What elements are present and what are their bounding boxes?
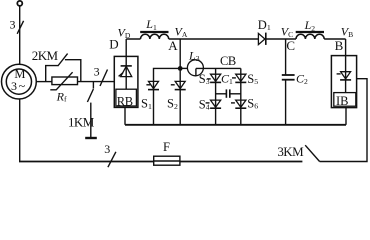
wire B box bottom to rail bbox=[345, 108, 347, 125]
2KM right arm bbox=[65, 60, 81, 82]
svg-text:B: B bbox=[335, 38, 344, 53]
RB inner box bbox=[116, 89, 136, 106]
svg-text:S3: S3 bbox=[199, 72, 210, 86]
D thyristor (pointing up) bbox=[125, 56, 127, 89]
bottom wire left bbox=[19, 161, 154, 163]
svg-text:CB: CB bbox=[220, 54, 236, 68]
svg-text:F: F bbox=[163, 140, 170, 154]
svg-text:VC: VC bbox=[281, 25, 293, 40]
top rail segment L2 to B bbox=[324, 38, 345, 40]
1KM lower wire bbox=[90, 103, 92, 138]
wire supply to motor bbox=[19, 6, 21, 64]
capacitor C2 plates bbox=[282, 74, 295, 76]
motor M outer circle bbox=[2, 64, 37, 99]
top rail segment D to L1 bbox=[126, 38, 140, 40]
svg-text:S4: S4 bbox=[199, 97, 210, 111]
svg-text:RB: RB bbox=[117, 94, 133, 108]
vertical rail to D box top bbox=[125, 39, 127, 56]
thyristor S3 bbox=[211, 74, 221, 81]
CB top line bbox=[196, 67, 241, 69]
svg-text:L3: L3 bbox=[188, 49, 200, 64]
svg-text:3: 3 bbox=[104, 142, 110, 156]
CB right leg wire bbox=[240, 68, 242, 124]
node A junction dot bbox=[178, 66, 183, 71]
thyristor S2 bbox=[175, 81, 185, 88]
svg-text:S5: S5 bbox=[247, 72, 258, 86]
wire motor bottom to bottom-left corner bbox=[19, 99, 21, 162]
wire C vertical bbox=[285, 39, 287, 75]
three-phase slash (middle) bbox=[100, 70, 108, 87]
svg-text:IB: IB bbox=[336, 94, 349, 108]
vertical D box bottom to rail bbox=[124, 107, 126, 125]
diode D1 bbox=[258, 33, 265, 44]
svg-text:L2: L2 bbox=[304, 18, 316, 33]
1KM blade bbox=[87, 89, 93, 102]
1KM end bar bbox=[85, 137, 97, 139]
capacitor C1 plates bbox=[225, 89, 227, 97]
svg-text:S1: S1 bbox=[141, 97, 152, 111]
wire S1 branch horizontal bbox=[154, 68, 181, 124]
svg-text:3~: 3~ bbox=[11, 79, 26, 93]
thyristor S6 bbox=[236, 100, 246, 107]
three-phase slash mark bbox=[17, 21, 23, 34]
svg-text:S6: S6 bbox=[247, 96, 258, 110]
svg-text:1KM: 1KM bbox=[68, 115, 95, 130]
wire B vertical bbox=[345, 39, 347, 56]
resistor thermistor slash bbox=[50, 72, 72, 90]
thyristor S4 bbox=[211, 100, 221, 107]
inductor L2 bbox=[296, 34, 324, 39]
three-phase slash (bottom) bbox=[108, 152, 116, 167]
wire A vertical bbox=[179, 39, 181, 68]
bottom wire to 3KM bbox=[180, 161, 303, 163]
D box (rectifier block) bbox=[114, 56, 138, 107]
top rail segment L1 to D1 bbox=[169, 38, 259, 40]
svg-text:Rf: Rf bbox=[56, 89, 67, 103]
svg-text:2KM: 2KM bbox=[32, 48, 59, 63]
inductor L1 bbox=[141, 34, 169, 39]
D thyristor gate bbox=[119, 73, 123, 77]
thyristor S1 bbox=[149, 81, 159, 88]
svg-text:VB: VB bbox=[341, 25, 353, 40]
wire resistor to D box bbox=[78, 81, 115, 83]
wire S2 vertical bbox=[179, 68, 181, 124]
3KM blade bbox=[305, 145, 319, 161]
inductor L3 (pigtail loop) bbox=[183, 67, 188, 69]
fuse F box bbox=[154, 156, 180, 165]
wire C2 to bottom rail bbox=[285, 80, 287, 125]
svg-text:3KM: 3KM bbox=[277, 144, 304, 159]
svg-text:C1: C1 bbox=[221, 72, 233, 86]
fuse wire through bbox=[154, 160, 180, 162]
terminal (supply) circle top-left bbox=[17, 1, 22, 6]
svg-text:3: 3 bbox=[10, 18, 16, 32]
svg-text:A: A bbox=[168, 38, 178, 53]
wire B box right side bbox=[320, 79, 367, 162]
capacitor C1 leads bbox=[216, 93, 227, 95]
wire motor to resistor bbox=[36, 81, 52, 83]
svg-text:C2: C2 bbox=[296, 72, 308, 86]
IB inner box bbox=[334, 93, 356, 107]
thyristor S5 bbox=[236, 74, 246, 81]
svg-text:C: C bbox=[286, 38, 295, 53]
resistor Rf box bbox=[52, 77, 78, 85]
B thyristor (pointing down) bbox=[345, 56, 347, 93]
2KM contact left vertical bbox=[46, 66, 59, 82]
svg-text:VD: VD bbox=[118, 26, 131, 41]
svg-text:3: 3 bbox=[94, 65, 100, 79]
svg-text:D1: D1 bbox=[258, 18, 271, 32]
svg-text:S2: S2 bbox=[167, 97, 178, 111]
2KM blade bbox=[58, 54, 68, 66]
bottom mid rail bbox=[125, 124, 346, 126]
CB left leg wire bbox=[215, 68, 217, 124]
B box (inverter block) bbox=[331, 56, 356, 108]
svg-text:L1: L1 bbox=[145, 17, 157, 32]
top rail segment D1 to L2 bbox=[266, 38, 296, 40]
motor M inner circle bbox=[6, 69, 31, 94]
1KM contact stub bbox=[92, 82, 94, 89]
